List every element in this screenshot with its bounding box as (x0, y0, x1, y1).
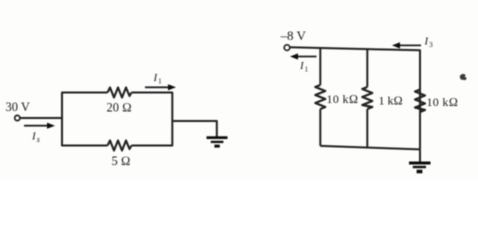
svg-text:10 kΩ: 10 kΩ (427, 95, 459, 109)
svg-text:s: s (37, 135, 40, 144)
svg-text:30 V: 30 V (6, 100, 30, 114)
svg-text:1: 1 (305, 65, 309, 74)
svg-text:5 Ω: 5 Ω (112, 154, 131, 168)
svg-text:1: 1 (158, 77, 162, 86)
svg-text:–8 V: –8 V (280, 28, 307, 43)
svg-text:10 kΩ: 10 kΩ (327, 92, 359, 106)
svg-text:1 kΩ: 1 kΩ (379, 94, 403, 108)
svg-text:3: 3 (429, 40, 433, 49)
svg-text:20 Ω: 20 Ω (107, 100, 132, 114)
